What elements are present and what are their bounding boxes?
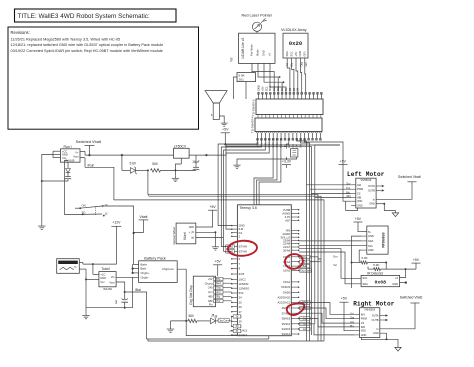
svg-text:SCL: SCL xyxy=(264,86,268,92)
svg-text:GND: GND xyxy=(368,234,374,238)
ground (header area) xyxy=(237,157,297,163)
svg-text:29: 29 xyxy=(239,319,242,323)
bottom bus xyxy=(147,338,269,340)
svg-text:6-M: 6-M xyxy=(239,227,244,231)
svg-text:35/A16: 35/A16 xyxy=(282,322,291,326)
svg-text:5.6V: 5.6V xyxy=(130,162,137,166)
wire run-i left to gnd rail xyxy=(42,154,53,223)
charger jack J3 xyxy=(57,259,80,274)
jumper block 5.9K xyxy=(237,73,256,82)
svg-text:AGND: AGND xyxy=(282,232,290,236)
red markup ellipse right (SCL/SDA) xyxy=(284,253,304,270)
net label 28 (led chain) xyxy=(233,315,241,318)
svg-text:TX: TX xyxy=(284,88,288,92)
net label SDA1 (left) xyxy=(226,250,235,253)
ground (charger) xyxy=(82,313,89,319)
svg-text:Battery Pack: Battery Pack xyxy=(144,256,166,260)
svg-text:Blu: Blu xyxy=(216,295,220,298)
LED D4 Chg Conn xyxy=(211,318,216,324)
title block xyxy=(15,9,177,22)
svg-text:Fin: Fin xyxy=(209,303,213,307)
net label SCL xyxy=(300,255,311,258)
svg-text:9/C5: 9/C5 xyxy=(239,272,245,276)
header J2 row2 xyxy=(255,118,322,132)
svg-text:SDA: SDA xyxy=(268,86,272,92)
svg-text:OUTB: OUTB xyxy=(368,190,375,193)
wire irun run (y=199.9) xyxy=(114,200,324,341)
wire jack pin1 xyxy=(79,261,83,263)
svg-text:Red: Red xyxy=(216,282,221,285)
header row1-row2 mating pins xyxy=(257,115,259,119)
wires teensy to right motor xyxy=(299,303,355,315)
wire jack pin2 down xyxy=(79,268,86,270)
motor driver U7 VNH5019 (left) xyxy=(356,178,376,208)
svg-text:INA: INA xyxy=(361,313,366,316)
svg-text:GND: GND xyxy=(369,203,375,206)
ground (right motor) xyxy=(395,345,401,351)
svg-text:CS: CS xyxy=(361,322,365,325)
red markup ellipse bottom (TX1) xyxy=(287,304,305,315)
wire imu adr xyxy=(359,250,361,262)
wire rail #2 xyxy=(225,145,311,147)
svg-text:Pur: Pur xyxy=(216,300,220,303)
svg-text:SCL: SCL xyxy=(289,51,293,57)
svg-text:+5V: +5V xyxy=(215,260,222,264)
net label SCL1 xyxy=(300,301,311,304)
mcu U1 Teensy 3.6 xyxy=(237,205,291,336)
svg-text:VDD: VDD xyxy=(361,330,366,333)
svg-text:GND: GND xyxy=(262,50,266,56)
svg-text:Grn: Grn xyxy=(216,291,221,294)
svg-text:15/A1: 15/A1 xyxy=(283,280,291,284)
svg-text:Blu: Blu xyxy=(350,325,354,328)
svg-text:560: 560 xyxy=(152,162,158,166)
svg-text:+5V: +5V xyxy=(413,258,420,262)
svg-text:33/A14: 33/A14 xyxy=(282,332,291,336)
svg-text:560: 560 xyxy=(189,314,195,318)
wire bundle header mid drops xyxy=(254,138,273,205)
svg-text:+3.3V: +3.3V xyxy=(282,159,292,163)
svg-text:Vout: Vout xyxy=(109,280,114,284)
svg-text:680: 680 xyxy=(208,299,213,303)
svg-text:+_IN: +_IN xyxy=(189,231,194,234)
svg-text:Total I: Total I xyxy=(101,267,110,271)
switched vbatt tap xyxy=(85,144,95,146)
svg-text:Vertical Wixel: Vertical Wixel xyxy=(172,227,176,245)
svg-text:ChgConn: ChgConn xyxy=(162,267,174,271)
svg-text:Vbatt: Vbatt xyxy=(140,215,148,219)
wires teensy to left motor xyxy=(306,184,351,186)
wire left motor gnd xyxy=(376,203,384,205)
svg-text:+5V: +5V xyxy=(355,217,362,221)
wire vout/irun xyxy=(80,157,85,159)
svg-text:Org: Org xyxy=(216,287,221,290)
svg-text:GND: GND xyxy=(256,85,260,91)
wire 5V rail corner xyxy=(226,145,340,155)
svg-text:D2: D2 xyxy=(288,87,292,91)
wire bundle header to teensy I2C xyxy=(221,138,261,246)
wire laser to lidar xyxy=(256,31,258,33)
VL53L0X array U3 xyxy=(283,33,308,58)
ground (regulator) xyxy=(180,158,182,164)
svg-text:11/26/21 Replaced Mega2560 wit: 11/26/21 Replaced Mega2560 with Teensy 3… xyxy=(11,38,121,42)
laser diode D1 xyxy=(252,22,261,31)
svg-text:SDA: SDA xyxy=(285,51,289,57)
svg-text:Org: Org xyxy=(299,62,303,67)
motor terminals (left) xyxy=(376,185,382,187)
svg-text:32/A13: 32/A13 xyxy=(239,333,248,337)
net label Yel xyxy=(300,322,311,325)
svg-text:D5: D5 xyxy=(299,144,303,148)
svg-text:INB: INB xyxy=(357,196,362,199)
svg-text:Chg Stat Disp: Chg Stat Disp xyxy=(189,285,193,305)
svg-text:13: 13 xyxy=(105,203,109,207)
svg-text:5.9K: 5.9K xyxy=(373,263,379,267)
svg-text:Pwr Mode: Pwr Mode xyxy=(250,44,254,56)
svg-text:38/A19: 38/A19 xyxy=(282,317,291,321)
net label Chg Conn xyxy=(300,269,312,272)
svg-text:12/MISO: 12/MISO xyxy=(239,286,250,290)
svg-text:INA169: INA169 xyxy=(103,287,112,291)
ground (left motor) xyxy=(392,210,398,216)
svg-text:OUTA: OUTA xyxy=(368,185,375,188)
svg-text:D3: D3 xyxy=(292,87,296,91)
svg-text:GP1: GP1 xyxy=(303,51,307,57)
jumper JP1 xyxy=(291,149,298,157)
svg-text:Yel: Yel xyxy=(230,57,234,62)
svg-text:A20/DAC0: A20/DAC0 xyxy=(277,295,290,299)
svg-text:Red Laser Pointer: Red Laser Pointer xyxy=(242,14,273,18)
svg-text:TITLE: WallE3 4WD Robot System: TITLE: WallE3 4WD Robot System Schematic… xyxy=(18,13,150,20)
svg-text:OUTA: OUTA xyxy=(372,315,379,318)
svg-text:VNH5019: VNH5019 xyxy=(364,308,375,311)
svg-text:Org: Org xyxy=(303,317,308,320)
svg-text:GND: GND xyxy=(361,334,367,337)
svg-text:GND: GND xyxy=(357,204,363,207)
svg-text:TD-796407-6: TD-796407-6 xyxy=(252,99,256,116)
svg-text:ChgIn-: ChgIn- xyxy=(141,275,149,279)
wire totali +cc xyxy=(92,264,94,274)
svg-text:(d): (d) xyxy=(191,237,194,240)
header J1 row1 xyxy=(256,99,323,115)
svg-text:LF50CV: LF50CV xyxy=(174,144,187,148)
wire chgconn xyxy=(177,269,237,335)
svg-text:Chg Conn: Chg Conn xyxy=(300,269,312,272)
svg-text:Vout: Vout xyxy=(73,155,78,159)
svg-text:240: 240 xyxy=(208,286,213,290)
+5V switched rail (y=155) xyxy=(85,154,226,156)
svg-text:INA: INA xyxy=(357,184,362,187)
wire imu gnd xyxy=(352,236,362,288)
svg-text:Grn: Grn xyxy=(333,255,338,259)
svg-text:SDA: SDA xyxy=(368,239,374,243)
revisions box xyxy=(8,27,199,129)
svg-text:GND0: GND0 xyxy=(283,290,291,294)
svg-text:34/A15: 34/A15 xyxy=(282,327,291,331)
svg-text:+5V: +5V xyxy=(210,205,217,209)
svg-text:Switched Vbatt: Switched Vbatt xyxy=(398,175,421,179)
wires teensy to IR xyxy=(299,249,361,279)
svg-text:Switched Vbatt: Switched Vbatt xyxy=(400,295,423,299)
svg-text:Org: Org xyxy=(350,317,355,320)
svg-text:+5V: +5V xyxy=(260,86,264,91)
wire batt sense A (y=194.3) xyxy=(148,170,318,341)
svg-text:10/C1: 10/C1 xyxy=(239,278,247,282)
net label 30 (led chain) xyxy=(233,325,241,328)
svg-text:5V3: 5V3 xyxy=(239,291,244,295)
svg-text:5.9K: 5.9K xyxy=(362,256,368,260)
wire right motor gnd xyxy=(380,333,387,339)
svg-text:5/T/AN: 5/T/AN xyxy=(239,245,247,249)
svg-text:0x20: 0x20 xyxy=(289,40,303,47)
svg-text:22/A8: 22/A8 xyxy=(283,242,291,246)
svg-text:480: 480 xyxy=(208,295,213,299)
svg-text:Grn: Grn xyxy=(350,321,355,324)
svg-text:Chg Conn: Chg Conn xyxy=(218,320,230,323)
svg-text:03/19/22 Corrected Spkr/LIDAR: 03/19/22 Corrected Spkr/LIDAR pin switch… xyxy=(11,49,163,53)
wire totali vout / IBat xyxy=(116,282,146,339)
wire batt minus return xyxy=(132,277,134,307)
svg-text:ChgIn+: ChgIn+ xyxy=(141,271,150,275)
svg-text:CS: CS xyxy=(357,193,361,196)
antenna A1 xyxy=(205,91,227,103)
svg-text:0/1: 0/1 xyxy=(239,231,243,235)
ground (wixel) xyxy=(212,244,219,250)
svg-text:Vin: Vin xyxy=(111,275,115,279)
svg-text:IBat: IBat xyxy=(135,288,141,292)
svg-text:GND: GND xyxy=(100,276,106,280)
wire totali vin to chgin xyxy=(116,276,139,278)
svg-text:SCL: SCL xyxy=(363,276,369,280)
net label 31/A12 (led chain) xyxy=(233,329,241,332)
net label SDA xyxy=(300,260,311,263)
svg-text:+5V: +5V xyxy=(208,277,213,281)
svg-text:D4: D4 xyxy=(295,144,299,148)
zener D2 under Run I xyxy=(67,162,69,168)
svg-text:RX: RX xyxy=(280,87,284,91)
svg-text:Vxx: Vxx xyxy=(100,280,105,284)
svg-text:24: 24 xyxy=(239,296,242,300)
wire +5v to vdd (right) xyxy=(344,302,355,331)
current sensor U4 INA169 (Run I) xyxy=(61,149,81,162)
net label Chg Conn (led) xyxy=(218,318,229,322)
svg-text:SDA: SDA xyxy=(363,282,369,286)
svg-text:VL53L0X Array: VL53L0X Array xyxy=(281,28,307,32)
ground (antenna) xyxy=(221,121,228,127)
svg-text:27: 27 xyxy=(239,310,242,314)
cap C1 under Run I xyxy=(67,173,69,177)
svg-text:11/M0SI: 11/M0SI xyxy=(239,282,249,286)
svg-text:25: 25 xyxy=(239,301,242,305)
svg-text:MPU6050: MPU6050 xyxy=(383,232,387,247)
svg-text:OUTB: OUTB xyxy=(372,319,379,322)
LIDAR-Lite module U2 xyxy=(239,33,276,63)
svg-text:6/T/AN: 6/T/AN xyxy=(239,249,247,253)
ground (left rail) xyxy=(38,223,45,229)
svg-text:TD-796407-4: TD-796407-4 xyxy=(251,116,255,133)
svg-text:A1F: A1F xyxy=(285,218,290,222)
svg-text:JU1: JU1 xyxy=(239,77,245,81)
svg-text:BTL: BTL xyxy=(216,278,221,281)
net label SCL1 (left) xyxy=(226,245,235,248)
svg-text:VNH5019: VNH5019 xyxy=(360,179,371,182)
wire wixel pin2 xyxy=(196,232,216,244)
net label Org xyxy=(300,317,311,320)
battery pins stubs xyxy=(133,263,139,265)
svg-text:Left Motor: Left Motor xyxy=(347,171,385,178)
svg-text:V+: V+ xyxy=(75,150,79,154)
svg-text:PWM: PWM xyxy=(357,188,363,191)
svg-text:Grn: Grn xyxy=(303,328,308,331)
svg-text:Batt-: Batt- xyxy=(141,267,147,271)
net label Batt xyxy=(300,265,311,268)
wire sw pole2 feed xyxy=(64,161,82,215)
svg-text:26: 26 xyxy=(239,305,242,309)
svg-text:+12V: +12V xyxy=(112,220,121,224)
svg-text:Teensy 3.6: Teensy 3.6 xyxy=(240,206,257,210)
svg-text:GND: GND xyxy=(298,51,302,57)
svg-text:Mode: Mode xyxy=(256,49,260,56)
svg-text:+5V: +5V xyxy=(294,52,298,57)
svg-text:15/3CN: 15/3CN xyxy=(281,285,290,289)
vertical bus right of teensy xyxy=(297,138,307,341)
red markup ellipse left (SCL1/SDA1) xyxy=(228,240,258,257)
svg-text:ADR: ADR xyxy=(368,248,374,252)
svg-text:+5V: +5V xyxy=(341,297,348,301)
wire antenna to gnd xyxy=(219,116,224,121)
svg-text:SC1: SC1 xyxy=(272,86,276,92)
zener D3 5.6V xyxy=(121,155,123,170)
motor driver U8 VNH5019 (right) xyxy=(360,308,380,338)
motor terminals (right) xyxy=(380,315,386,317)
svg-text:+5V: +5V xyxy=(222,128,229,132)
wire totali gnd xyxy=(86,278,99,280)
ground (LED chain) xyxy=(170,321,172,326)
+5V supply (main) xyxy=(221,128,230,133)
svg-text:AGND: AGND xyxy=(282,212,290,216)
svg-text:GND: GND xyxy=(392,282,398,286)
svg-text:Switched Vbatt: Switched Vbatt xyxy=(76,140,102,144)
wire v+ up to rail xyxy=(80,150,85,152)
wire sw out to batt+ xyxy=(103,206,134,264)
svg-text:PWM: PWM xyxy=(361,318,367,321)
svg-text:Yel: Yel xyxy=(333,263,337,267)
svg-text:+CC: +CC xyxy=(100,273,105,277)
svg-text:Revisions:: Revisions: xyxy=(11,30,30,35)
svg-text:Grn: Grn xyxy=(208,290,213,294)
svg-text:Yel: Yel xyxy=(350,312,354,315)
svg-text:D3: D3 xyxy=(291,144,295,148)
svg-text:0x08: 0x08 xyxy=(375,280,387,286)
svg-text:SD1: SD1 xyxy=(276,86,280,92)
svg-text:Chg+g: Chg+g xyxy=(205,281,213,285)
svg-text:Right Motor: Right Motor xyxy=(353,300,395,307)
wire ir gnd xyxy=(400,282,406,284)
wire batt sense B (y=196.2) xyxy=(149,196,321,341)
svg-text:12/18/21: replaced switched GN: 12/18/21: replaced switched GND wire wit… xyxy=(11,43,164,47)
svg-text:12: 12 xyxy=(105,212,109,216)
net label TX1 xyxy=(300,306,311,309)
svg-text:VDD: VDD xyxy=(357,200,362,203)
svg-text:SCL: SCL xyxy=(368,244,374,248)
svg-text:A21/DAC1: A21/DAC1 xyxy=(277,301,290,305)
svg-text:D4: D4 xyxy=(296,87,300,91)
svg-text:INB: INB xyxy=(361,326,366,329)
svg-text:GND: GND xyxy=(239,224,245,228)
wire +12V to jack rail xyxy=(83,263,117,265)
svg-text:Grn: Grn xyxy=(304,62,308,67)
svg-text:20/A6: 20/A6 xyxy=(283,248,291,252)
wires lidar/vl53 to header xyxy=(252,63,274,93)
svg-text:GND: GND xyxy=(189,226,195,229)
wires teensy sda/scl to imu xyxy=(299,240,361,242)
svg-text:GND: GND xyxy=(373,332,379,335)
svg-text:16/A2: 16/A2 xyxy=(283,269,291,273)
wire wixel pin3 xyxy=(196,237,223,239)
svg-text:Wixel: Wixel xyxy=(183,232,187,240)
svg-text:LiDAR-Lite v2: LiDAR-Lite v2 xyxy=(241,37,245,58)
svg-text:VUSB: VUSB xyxy=(283,208,291,212)
net label Grn xyxy=(300,327,311,330)
svg-text:ON: ON xyxy=(82,203,86,207)
